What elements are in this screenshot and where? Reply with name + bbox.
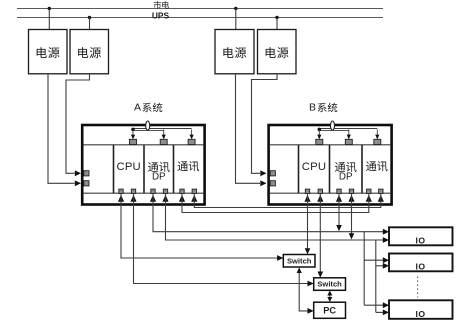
wire: PSU3 -> B-rack lower power input <box>236 74 261 184</box>
rack A: bottom port 5 <box>180 189 184 193</box>
wire: PSU4 -> B-rack upper power input <box>252 74 278 174</box>
box IO 2 <box>389 254 453 272</box>
svg-text:CPU: CPU <box>116 161 140 173</box>
bus: comm ring upper (A通讯2 - B通讯2) <box>194 193 380 207</box>
wire: feeder2 -> IO2 <box>376 265 384 267</box>
rack A: module divider x=144 <box>143 145 145 193</box>
rack B: module divider x=298.5 <box>298 145 300 193</box>
rack A: bottom port 2 <box>131 189 135 193</box>
rack B: bottom port 6 <box>379 189 383 193</box>
node: tap to PSU1 <box>48 7 51 10</box>
rack A: backplane bottom line <box>84 192 204 194</box>
wire: B CPU2 -> Switch2 top <box>319 193 321 273</box>
bus: IO feeder vertical 2 <box>375 240 377 312</box>
rack A: module divider x=113.5 <box>113 145 115 193</box>
svg-text:A: A <box>134 101 141 113</box>
wire: mains rail 市电 <box>17 8 383 10</box>
rack B: backplane top line <box>270 144 390 146</box>
rack B: power input port upper <box>270 171 275 176</box>
rack A: backplane top line <box>84 144 204 146</box>
rack B: bottom port 4 <box>349 189 353 193</box>
wire: PSU1 -> A-rack lower power input <box>48 74 75 184</box>
rack B: module divider x=329.5 <box>329 145 331 193</box>
fuse/breaker symbol on rack B top border <box>331 121 335 130</box>
rack B: bottom port 3 <box>337 189 341 193</box>
rack B: power input port lower <box>270 181 275 186</box>
bus: comm ring lower (A通讯1 - B通讯1) <box>182 193 369 212</box>
box Switch 1 <box>283 255 315 268</box>
rack A: power input port upper <box>84 171 89 176</box>
rack A: bottom port 4 <box>163 189 167 193</box>
svg-text:IO: IO <box>415 236 425 246</box>
box IO 3 <box>389 300 453 319</box>
wire: UPS rail <box>17 17 383 19</box>
rack B: bottom port 5 <box>367 189 371 193</box>
wire: B CPU1 -> Switch1 top <box>307 193 309 249</box>
rack B: bottom port 1 <box>305 189 309 193</box>
rack A: power input port lower <box>84 181 89 186</box>
svg-text:UPS: UPS <box>152 10 170 20</box>
bus: DP bus 1 (A DP1 -> IO) <box>153 193 384 232</box>
dotted continuation between IO2 and IO3 <box>417 277 419 298</box>
label 市电 (mains) <box>154 1 161 9</box>
wire: feeder2 -> IO3 <box>376 311 384 313</box>
wire: Switch1 <-> PC <box>299 272 308 311</box>
rack B: outer box <box>269 125 392 205</box>
svg-text:DP: DP <box>152 171 166 182</box>
wire: Switch2 <-> PC double arrow <box>329 295 331 299</box>
rack B: bottom port 2 <box>318 189 322 193</box>
box Switch 2 <box>314 278 346 291</box>
title B系统 <box>318 103 327 112</box>
wire: feeder1 -> IO3 <box>364 304 384 306</box>
wire: B DP1 drop onto DP bus 1 <box>338 193 340 226</box>
rack B: backplane bottom line <box>270 192 390 194</box>
svg-text:DP: DP <box>339 171 353 182</box>
power supply box 电源 #2 <box>70 30 109 74</box>
rack B: top connector 3 arrow+port <box>376 129 378 135</box>
node: tap to PSU2 <box>88 16 91 19</box>
node: tap to PSU4 <box>275 16 278 19</box>
power supply box 电源 #1 <box>29 30 68 74</box>
wire: A CPU2 -> Switch2 <box>134 193 309 283</box>
rack A: bottom port 3 <box>151 189 155 193</box>
rack A: top connector 1 arrow+port <box>132 129 134 135</box>
rack A: top connector 3 arrow+port <box>191 129 193 135</box>
fuse/breaker symbol on rack A top border <box>146 121 150 130</box>
svg-text:PC: PC <box>323 305 336 315</box>
label 通讯 module A <box>177 161 187 171</box>
bus: DP bus 2 (A DP2 -> IO) <box>166 193 385 240</box>
node: tap to PSU3 <box>234 7 237 10</box>
wire: B DP2 drop onto DP bus 2 <box>351 193 353 235</box>
svg-text:CPU: CPU <box>302 161 326 173</box>
label 通讯 module B <box>366 161 376 171</box>
box PC <box>314 302 346 318</box>
rack B: top connector 1 arrow+port <box>318 129 320 135</box>
bus: IO feeder vertical 1 <box>363 232 365 306</box>
svg-text:IO: IO <box>415 309 425 319</box>
label 通讯 DP module B <box>335 162 345 172</box>
svg-text:IO: IO <box>415 262 425 272</box>
wire: PSU2 -> A-rack upper power input <box>66 74 90 174</box>
title A系统 <box>143 103 152 112</box>
rack A: bottom port 6 <box>192 189 196 193</box>
rack A: module divider x=173.5 <box>173 145 175 193</box>
wire: rack B internal top distribution <box>319 128 377 130</box>
rack A: bottom port 1 <box>119 189 123 193</box>
wire: feeder1 -> IO2 <box>364 259 384 261</box>
svg-text:B: B <box>309 101 316 113</box>
rack A: top connector 2 arrow+port <box>163 129 165 135</box>
box IO 1 <box>389 227 453 245</box>
wire: rack A internal top distribution <box>133 128 192 130</box>
rack B: module divider x=362 <box>361 145 363 193</box>
power supply box 电源 #4 <box>258 30 297 74</box>
svg-text:Switch: Switch <box>287 256 312 265</box>
rack B: top connector 2 arrow+port <box>348 129 350 135</box>
power supply box 电源 #3 <box>215 30 254 74</box>
rack A: outer box <box>82 125 204 205</box>
label 通讯 DP module A <box>148 162 158 172</box>
svg-text:Switch: Switch <box>317 280 342 289</box>
wire: A CPU1 -> Switch1 <box>121 193 278 258</box>
